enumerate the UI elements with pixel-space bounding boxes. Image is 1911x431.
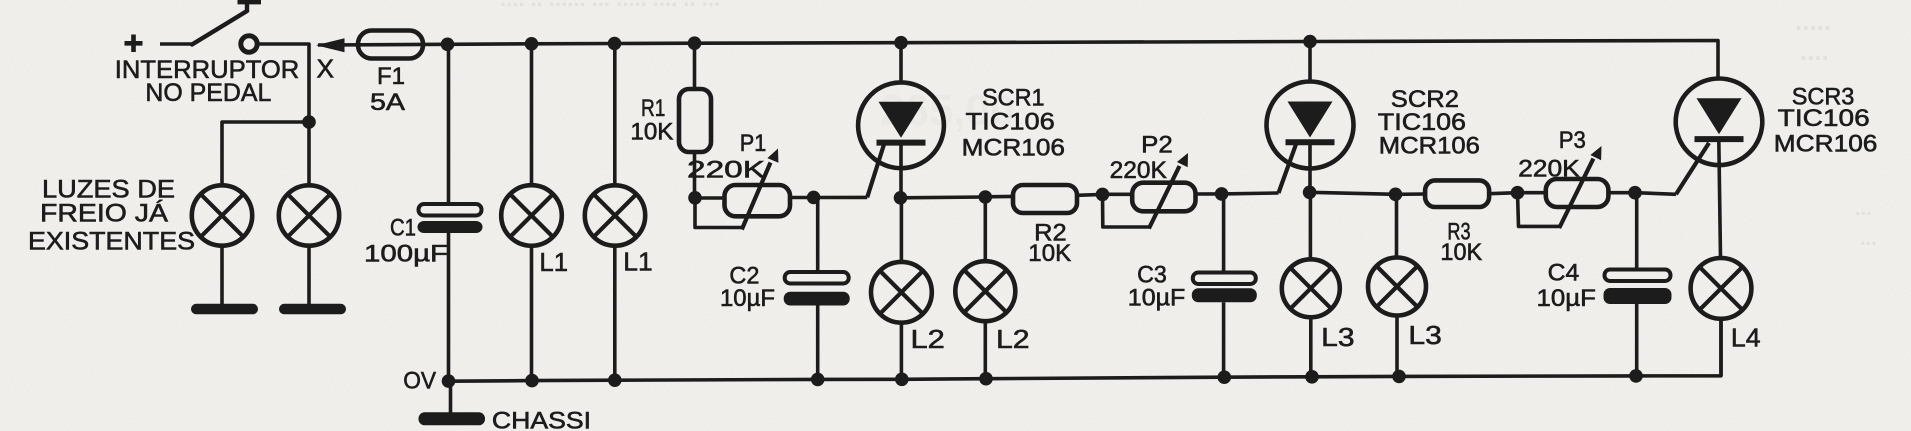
wire rail to C1 — [447, 44, 451, 204]
chassis ground bar — [419, 412, 486, 425]
svg-text:TIC106: TIC106 — [966, 109, 1055, 136]
wire C2 top — [816, 197, 820, 272]
fuse F1 — [358, 31, 423, 59]
wire L2a to 0V — [900, 323, 904, 380]
svg-text:L2: L2 — [911, 324, 945, 354]
potentiometer P2 220K — [1132, 183, 1195, 212]
wire cathode node to L2b node — [901, 195, 986, 199]
existing brake lamp A — [192, 185, 252, 245]
svg-text:10K: 10K — [630, 119, 673, 146]
0V rail junctions — [442, 374, 456, 388]
resistor R3 10K — [1425, 180, 1489, 207]
wire L4 to 0V — [1719, 319, 1723, 376]
wire R2 to P2 node — [1077, 193, 1103, 198]
wire C4 to 0V — [1635, 304, 1639, 376]
junction P2 left — [1096, 188, 1110, 202]
wire C3 to 0V — [1222, 302, 1226, 377]
svg-text:L3: L3 — [1321, 322, 1354, 352]
lamp L3a — [1282, 259, 1340, 317]
wire C3 top — [1222, 194, 1226, 273]
switch S1 (interruptor no pedal) lever — [192, 11, 247, 45]
paper noise — [0, 0, 1, 1]
wire C4 top — [1635, 193, 1639, 270]
resistor R2 10K — [1013, 185, 1077, 213]
lamp L1a — [501, 185, 562, 246]
junction SCR1 cathode — [894, 191, 908, 205]
lamp L3b — [1368, 258, 1426, 316]
svg-text:L3: L3 — [1408, 320, 1441, 350]
svg-text:OV: OV — [403, 368, 436, 395]
wire cathode node to L3b node — [1310, 192, 1396, 194]
wiper return hook P2 — [1103, 194, 1150, 227]
0V rail — [449, 318, 1722, 381]
junction SCR2 cathode — [1303, 186, 1317, 200]
lamp L4 — [1691, 258, 1752, 319]
top supply rail — [318, 41, 1718, 80]
wire L1b to 0V — [613, 246, 617, 381]
junction gate/C2 node 1 — [807, 191, 821, 205]
junction C1 top — [441, 38, 455, 52]
svg-text:EXISTENTES: EXISTENTES — [28, 228, 195, 256]
SCR1 gate lead — [867, 144, 884, 197]
capacitor C3 10uF — [1193, 273, 1256, 285]
junction L3b — [1389, 188, 1403, 202]
svg-text:MCR106: MCR106 — [962, 135, 1065, 162]
SCR2 cathode wire — [1308, 142, 1312, 192]
wire rail to L1b — [613, 44, 617, 187]
capacitor C4 10uF — [1605, 270, 1671, 282]
svg-text:L2: L2 — [996, 324, 1030, 354]
faint printing bleed-through — [500, 0, 1877, 250]
wire rail to L1a — [530, 44, 534, 186]
SCR3 gate lead — [1676, 143, 1709, 194]
wire P2 to gate node — [1196, 192, 1222, 196]
svg-text:10K: 10K — [1028, 240, 1071, 267]
wire C2 to 0V — [816, 306, 820, 380]
wire node to P2 — [1103, 193, 1133, 197]
wire rail to R1 — [693, 43, 697, 90]
SCR2 TIC106 MCR106 — [1267, 82, 1354, 169]
junction gate/C3 node 2 — [1215, 187, 1229, 201]
SCR3 TIC106 MCR106 — [1676, 79, 1763, 166]
wire to lamp L2b — [983, 197, 987, 261]
wire node to P1 — [695, 196, 725, 200]
svg-text:P1: P1 — [740, 130, 767, 157]
lamp L2a — [871, 262, 932, 323]
wire to existing lamp 1 — [222, 122, 309, 186]
svg-text:220K: 220K — [687, 156, 765, 183]
wire P3 to gate node — [1608, 191, 1635, 195]
junction L2b — [979, 190, 993, 204]
svg-text:P3: P3 — [1559, 127, 1586, 154]
capacitor C1 — [419, 204, 482, 216]
wire L3b node to R3 — [1396, 192, 1426, 196]
resistor R1 10K — [679, 89, 711, 152]
wiper return hook P1 — [695, 198, 743, 228]
wire L3b to 0V — [1395, 316, 1399, 377]
svg-text:P2: P2 — [1141, 132, 1173, 159]
wire L1a to 0V — [530, 246, 534, 381]
potentiometer P3 220K — [1546, 179, 1609, 207]
junction SCR2 anode — [1303, 35, 1317, 49]
wire P1 to gate node — [790, 196, 814, 200]
svg-text:10µF: 10µF — [1128, 285, 1186, 312]
wire node X to lamp B — [307, 122, 311, 186]
wiper return hook P3 — [1518, 193, 1560, 227]
junction L1b top — [608, 37, 622, 51]
wire switch to node X — [259, 44, 310, 122]
wire lamp A to ground — [220, 246, 224, 305]
svg-text:L4: L4 — [1731, 322, 1761, 352]
wire gate node to SCR2 gate — [1222, 191, 1279, 195]
svg-text:SCR1: SCR1 — [982, 85, 1045, 112]
junction L1a top — [525, 37, 539, 51]
junction node below X — [302, 115, 316, 129]
wire gate node to SCR3 gate — [1635, 193, 1676, 195]
wire rail to SCR1 anode — [899, 43, 903, 83]
junction gate/C4 node 3 — [1628, 186, 1642, 200]
wire lamp B to ground — [307, 246, 311, 305]
svg-text:10µF: 10µF — [1537, 285, 1596, 312]
arrow into node X — [316, 38, 345, 52]
switch S1 terminal circle — [241, 36, 257, 52]
node + (battery positive) — [125, 41, 143, 46]
svg-text:100µF: 100µF — [364, 241, 448, 268]
wire 0V to chassis — [449, 381, 453, 413]
wire gate node to SCR1 gate — [814, 196, 868, 200]
wire L2b node to R2 — [985, 195, 1013, 199]
svg-text:X: X — [317, 54, 335, 84]
wire L2b to 0V — [983, 321, 987, 379]
lamp L1b — [585, 185, 645, 245]
capacitor C2 10uF — [785, 272, 849, 284]
wire cathode to L2a — [900, 198, 904, 262]
svg-text:FREIO JÁ: FREIO JÁ — [40, 199, 168, 228]
potentiometer P1 220K — [725, 185, 791, 216]
svg-text:L1: L1 — [539, 247, 568, 277]
junction R1 top — [688, 36, 702, 50]
wire C1 to 0V rail — [447, 233, 451, 381]
wire to lamp L3b — [1395, 194, 1399, 257]
wire rail to SCR2 anode — [1308, 42, 1312, 83]
SCR3 cathode wire to L4 — [1719, 139, 1721, 258]
wire + to switch — [160, 42, 193, 46]
SCR2 gate lead — [1279, 140, 1298, 193]
wire R1 to P1 node — [693, 152, 697, 198]
svg-text:F1: F1 — [377, 63, 405, 90]
wire node to P3 — [1518, 191, 1547, 195]
svg-text:220K: 220K — [1110, 157, 1167, 184]
svg-text:MCR106: MCR106 — [1379, 132, 1480, 159]
lamp L2b — [955, 261, 1015, 321]
SCR1 TIC106 MCR106 — [858, 82, 944, 168]
ground bar lamp B — [279, 304, 346, 315]
svg-text:CHASSI: CHASSI — [492, 408, 591, 431]
wire cathode to L3a — [1309, 192, 1313, 259]
svg-text:L1: L1 — [623, 246, 652, 276]
svg-text:NO PEDAL: NO PEDAL — [145, 79, 271, 107]
svg-text:5A: 5A — [370, 89, 405, 116]
wire L3a to 0V — [1309, 317, 1313, 377]
svg-text:TIC106: TIC106 — [1778, 105, 1870, 132]
junction P3 left — [1511, 186, 1525, 200]
junction P1 left — [688, 191, 702, 205]
svg-text:MCR106: MCR106 — [1774, 131, 1878, 158]
junction SCR1 anode — [894, 36, 908, 50]
wire R3 to P3 node — [1489, 193, 1517, 194]
svg-text:10µF: 10µF — [720, 285, 775, 312]
svg-text:10K: 10K — [1440, 239, 1482, 266]
svg-text:C1: C1 — [390, 215, 416, 242]
ground bar lamp A — [191, 304, 258, 315]
svg-text:C4: C4 — [1548, 260, 1580, 287]
existing brake lamp B — [279, 185, 339, 245]
svg-text:220K: 220K — [1518, 156, 1580, 183]
SCR1 cathode wire — [899, 143, 903, 198]
